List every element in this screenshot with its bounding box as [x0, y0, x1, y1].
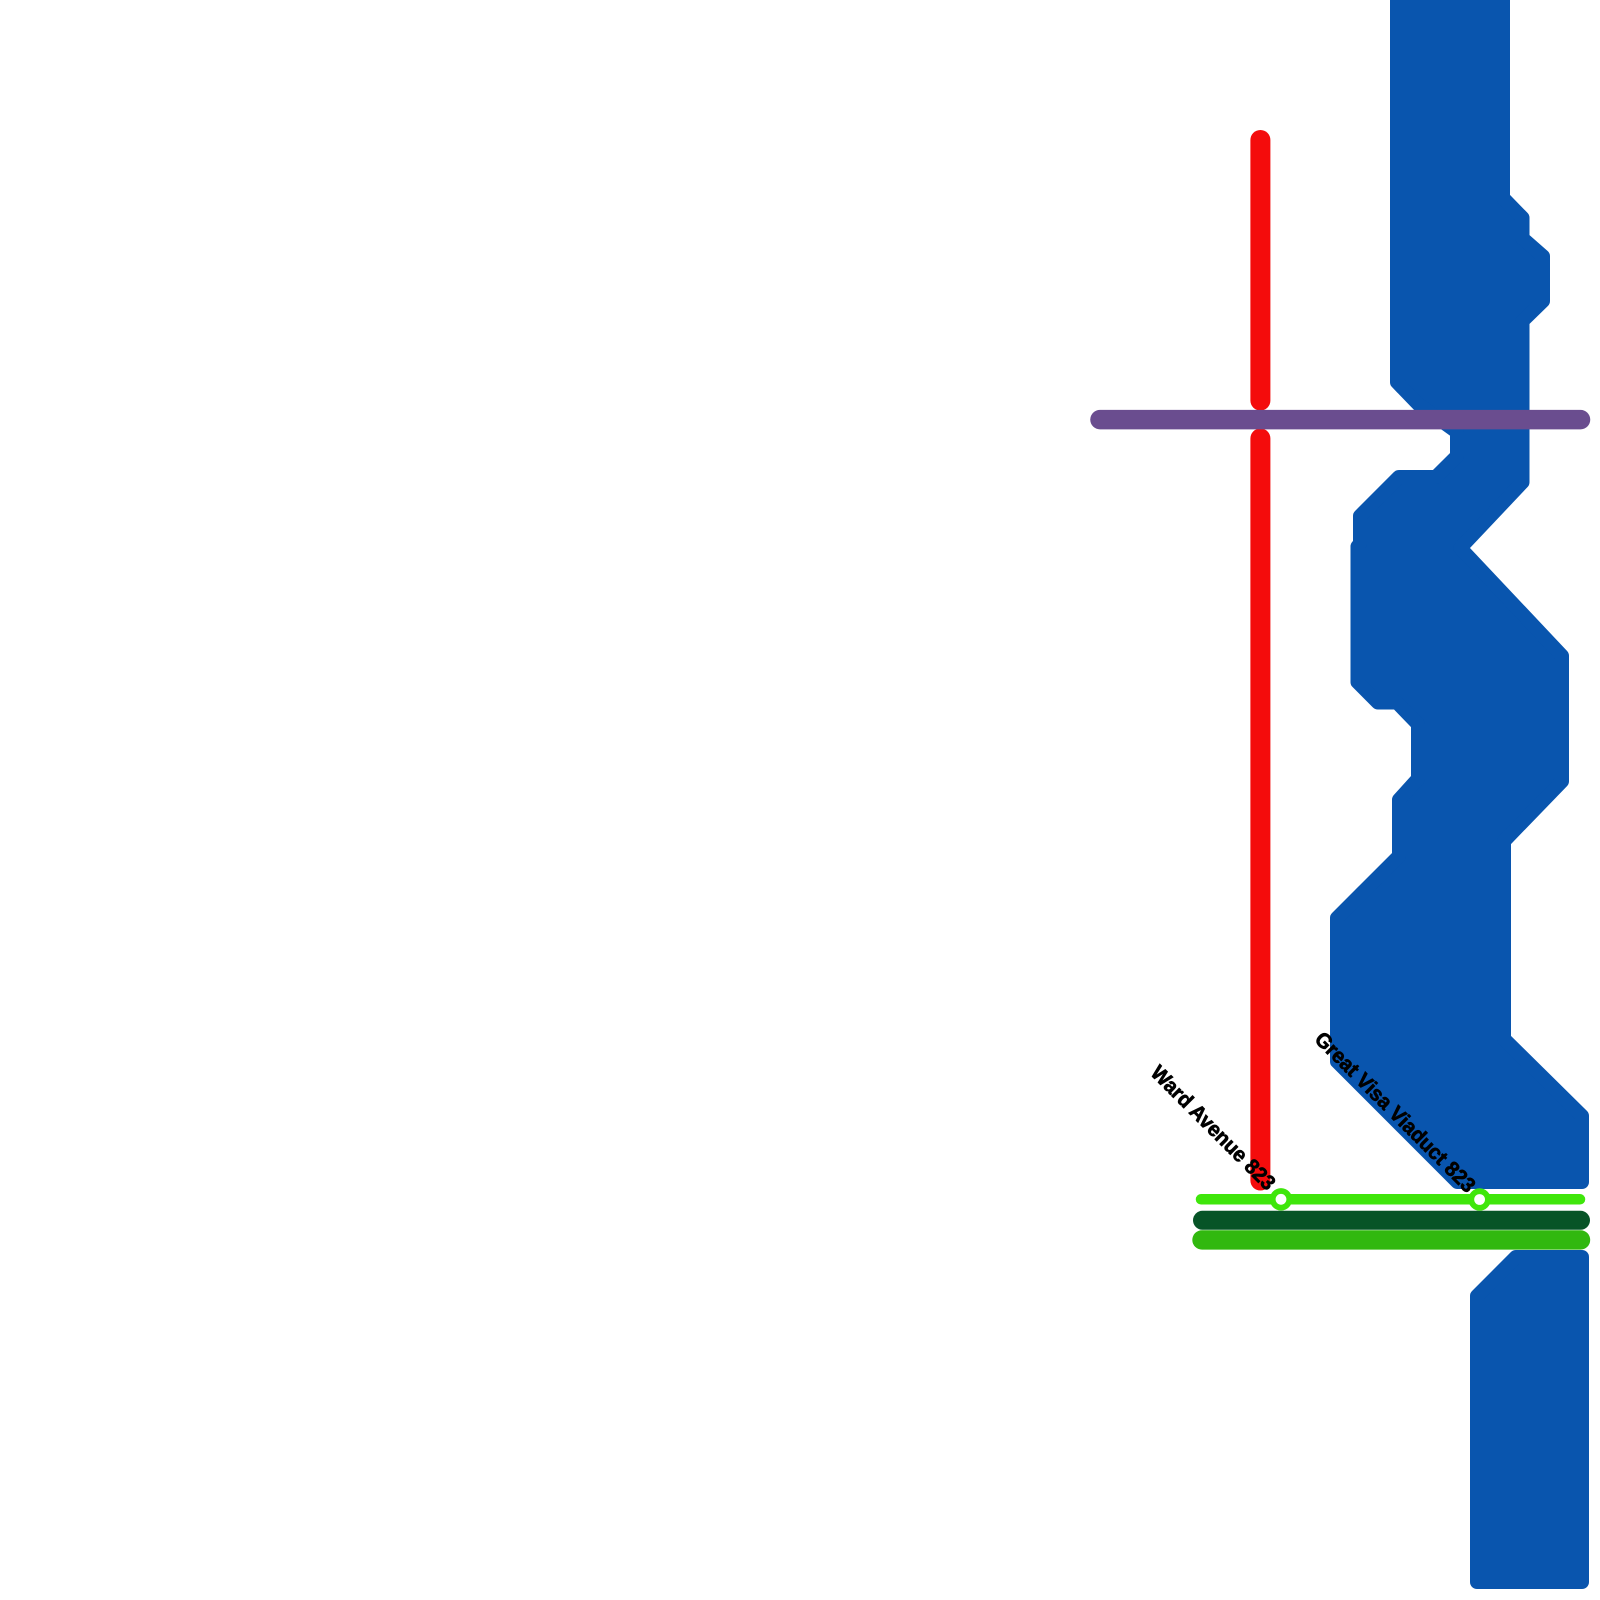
purple line — [1100, 410, 1581, 430]
river Great Visa (lower polygon) — [1477, 1257, 1582, 1582]
river Great Visa (upper polygon) — [1337, 0, 1582, 1182]
medium green line — [1202, 1230, 1581, 1249]
red line (Ward Avenue route, lower segment) — [1250, 439, 1270, 1181]
dark green line — [1203, 1211, 1581, 1230]
bright green line (with stations) — [1201, 1194, 1580, 1205]
station Ward Avenue 823 — [1273, 1191, 1290, 1208]
station Great Visa Viaduct 823 — [1471, 1191, 1488, 1208]
red line (Ward Avenue route, upper segment) — [1250, 140, 1270, 401]
